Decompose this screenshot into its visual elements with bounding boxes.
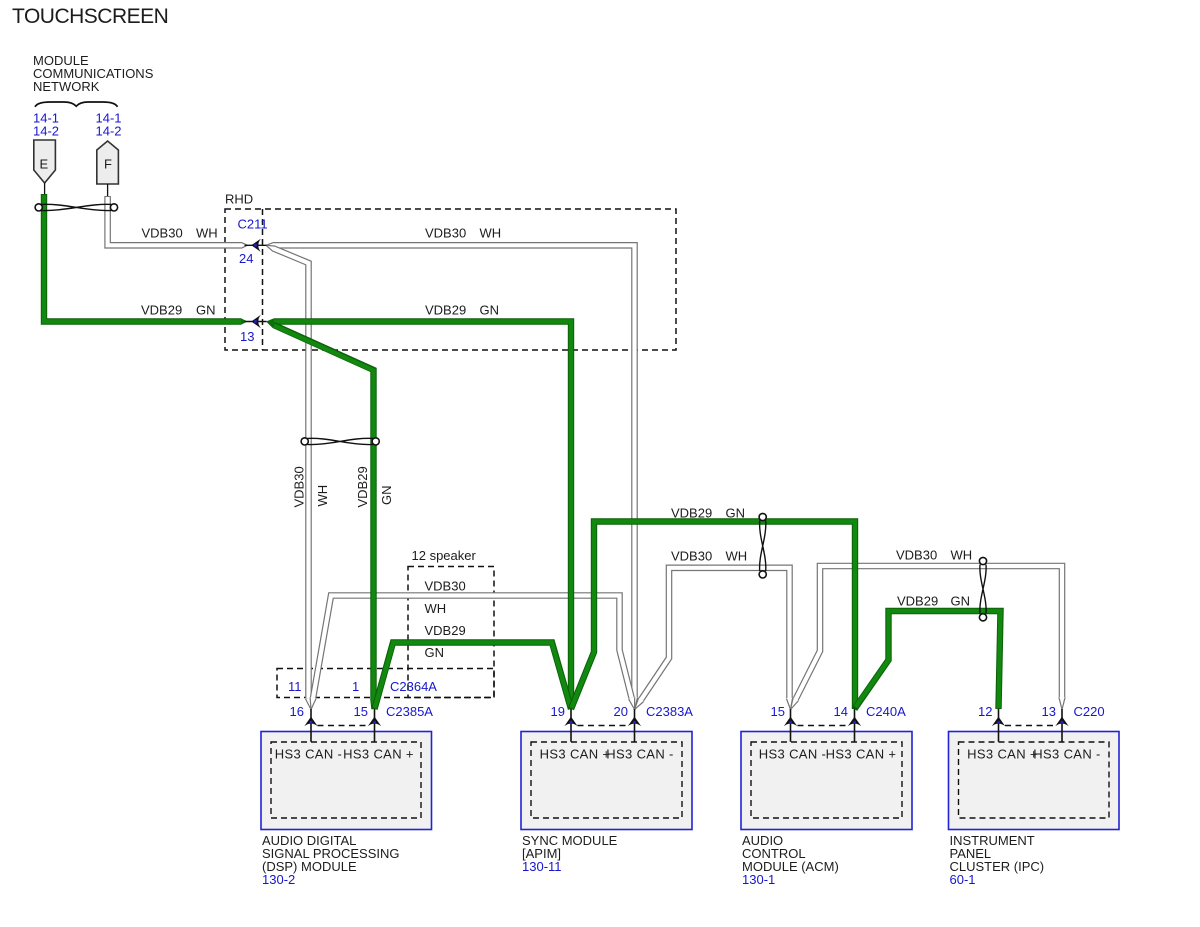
ACM module name <box>742 833 839 887</box>
wire label VDB30 WH (right of C211) <box>425 226 501 241</box>
node label MODULE COMMUNICATIONS NETWORK <box>33 53 154 94</box>
svg-text:HS3 CAN +: HS3 CAN + <box>540 747 611 762</box>
svg-text:WH: WH <box>726 549 748 564</box>
svg-text:VDB29: VDB29 <box>671 506 712 521</box>
svg-text:F: F <box>104 157 112 172</box>
svg-text:12 speaker: 12 speaker <box>412 548 477 563</box>
SYNC pin 20 terminal arrow <box>628 709 641 742</box>
svg-text:VDB30: VDB30 <box>292 466 307 507</box>
svg-text:GN: GN <box>726 506 746 521</box>
brace over network connectors <box>35 102 118 107</box>
svg-text:VDB30: VDB30 <box>425 226 466 241</box>
wire VDB30 WH (DSP pin 16 to SYNC pin 20, 12 speaker) <box>310 596 635 710</box>
module U4 INSTRUMENT PANEL CLUSTER (IPC) box <box>949 726 1120 830</box>
svg-text:13: 13 <box>240 329 254 344</box>
svg-text:VDB29: VDB29 <box>141 303 182 318</box>
connector C211 boundary line (dashed) <box>262 209 264 350</box>
svg-text:WH: WH <box>951 548 973 563</box>
connector E <box>34 140 56 194</box>
svg-text:20: 20 <box>614 704 628 719</box>
wire VDB30 WH (connector F to C211 pin 24) <box>108 196 248 249</box>
wire VDB30 WH (ACM pin 15 to IPC C220 pin 13) <box>791 566 1066 710</box>
svg-text:HS3 CAN -: HS3 CAN - <box>1033 747 1100 762</box>
SYNC pin 19 terminal arrow <box>564 709 577 742</box>
svg-text:GN: GN <box>196 303 216 318</box>
RHD option box (dashed) <box>225 192 676 351</box>
svg-text:VDB30: VDB30 <box>142 226 183 241</box>
svg-text:C2385A: C2385A <box>386 704 433 719</box>
svg-text:HS3 CAN +: HS3 CAN + <box>967 747 1038 762</box>
wire VDB30 WH (C211 pin 24 to DSP C2385A pin 16) <box>266 245 312 709</box>
svg-text:NETWORK: NETWORK <box>33 79 100 94</box>
svg-text:VDB30: VDB30 <box>671 549 712 564</box>
C211 pin 24 arrow <box>245 239 267 252</box>
connector C2364A box (dashed) <box>277 669 494 698</box>
svg-text:VDB30: VDB30 <box>425 579 466 594</box>
wire VDB30 WH (C211 pin 24 to SYNC C2383A pin 20) <box>266 242 638 710</box>
svg-text:15: 15 <box>771 704 785 719</box>
svg-text:15: 15 <box>354 704 368 719</box>
12 speaker option box (dashed) <box>408 548 494 698</box>
IPC module name <box>950 833 1045 887</box>
DSP module name <box>262 833 400 887</box>
wire label VDB29 GN (left of C211) <box>141 303 216 318</box>
svg-text:14-2: 14-2 <box>33 124 59 139</box>
wire label VDB30 / WH (12 speaker run) <box>425 579 466 617</box>
node reference 14-1 14-2 (left) <box>33 111 59 139</box>
wire VDB30 WH (SYNC pin 20 to ACM C240A pin 15) <box>635 568 793 710</box>
svg-text:14: 14 <box>834 704 848 719</box>
svg-text:HS3 CAN -: HS3 CAN - <box>606 747 673 762</box>
svg-text:GN: GN <box>425 645 445 660</box>
svg-text:19: 19 <box>551 704 565 719</box>
wire VDB29 GN (C211 pin 13 to SYNC C2383A pin 19) <box>266 318 571 709</box>
wire VDB29 GN (ACM pin 14 to IPC C220 pin 12) <box>855 611 1001 709</box>
svg-text:WH: WH <box>425 601 447 616</box>
ACM pin 14 terminal arrow <box>848 709 861 742</box>
svg-text:11: 11 <box>288 679 302 694</box>
wire VDB29 GN (connector E to C211 pin 13) <box>44 194 248 325</box>
svg-text:HS3 CAN +: HS3 CAN + <box>343 747 414 762</box>
svg-text:C2364A: C2364A <box>390 679 437 694</box>
ACM pin 15 terminal arrow <box>784 709 797 742</box>
svg-text:VDB30: VDB30 <box>896 548 937 563</box>
module U2 SYNC MODULE [APIM] box <box>521 726 692 830</box>
svg-text:12: 12 <box>978 704 992 719</box>
wire label VDB29 GN (right of C211) <box>425 303 499 318</box>
svg-text:VDB29: VDB29 <box>897 594 938 609</box>
svg-text:VDB29: VDB29 <box>425 623 466 638</box>
wire label VDB30 WH (SYNC to ACM run) <box>671 549 747 564</box>
node reference 14-1 14-2 (right) <box>96 111 122 139</box>
svg-text:GN: GN <box>951 594 971 609</box>
C211 pin 13 arrow <box>245 315 267 328</box>
svg-text:VDB29: VDB29 <box>355 466 370 507</box>
svg-text:GN: GN <box>379 486 394 506</box>
svg-text:1: 1 <box>352 679 359 694</box>
SYNC module name <box>522 833 618 874</box>
svg-text:130-11: 130-11 <box>522 859 562 874</box>
svg-text:24: 24 <box>239 251 253 266</box>
twisted pair symbol (ACM-IPC runs) <box>979 557 986 621</box>
svg-text:130-1: 130-1 <box>742 872 775 887</box>
twisted pair symbol (x=308/373 runs) <box>301 438 379 445</box>
wire VDB29 GN (SYNC pin 19 to ACM C240A pin 14) <box>571 522 855 710</box>
wire label VDB29 GN (SYNC to ACM run) <box>671 506 745 521</box>
module U3 AUDIO CONTROL MODULE (ACM) box <box>741 726 912 830</box>
svg-text:60-1: 60-1 <box>950 872 976 887</box>
wire label VDB29 GN (ACM to IPC run) <box>897 594 970 609</box>
svg-text:13: 13 <box>1042 704 1056 719</box>
IPC pin 13 terminal arrow <box>1055 709 1068 742</box>
IPC pin 12 terminal arrow <box>992 709 1005 742</box>
svg-text:HS3 CAN +: HS3 CAN + <box>826 747 897 762</box>
svg-text:C220: C220 <box>1074 704 1105 719</box>
svg-text:HS3 CAN -: HS3 CAN - <box>759 747 826 762</box>
svg-text:RHD: RHD <box>225 192 253 207</box>
svg-text:C240A: C240A <box>866 704 906 719</box>
connector F <box>97 141 119 196</box>
svg-text:WH: WH <box>315 485 330 507</box>
twisted pair symbol (E/F leads) <box>35 204 118 211</box>
wire VDB29 GN (DSP pin 15 to SYNC pin 19, 12 speaker) <box>375 643 572 710</box>
wire label VDB30 WH (left of C211) <box>142 226 218 241</box>
svg-text:TOUCHSCREEN: TOUCHSCREEN <box>12 5 168 28</box>
wire label VDB29 / GN (12 speaker run) <box>425 623 466 660</box>
svg-text:C2383A: C2383A <box>646 704 693 719</box>
svg-text:E: E <box>40 157 49 172</box>
wire VDB29 GN (C211 pin 13 to DSP C2385A pin 15) <box>266 322 375 710</box>
svg-text:HS3 CAN -: HS3 CAN - <box>275 747 342 762</box>
svg-text:16: 16 <box>290 704 304 719</box>
svg-text:C211: C211 <box>238 217 268 232</box>
twisted pair symbol (SYNC-ACM runs) <box>759 513 766 578</box>
svg-text:14-2: 14-2 <box>96 124 122 139</box>
DSP pin 15 terminal arrow <box>368 709 381 742</box>
svg-text:130-2: 130-2 <box>262 872 295 887</box>
svg-text:WH: WH <box>196 226 218 241</box>
svg-text:WH: WH <box>480 226 502 241</box>
module U1 AUDIO DIGITAL SIGNAL PROCESSING (DSP) MODULE box <box>261 726 432 830</box>
svg-text:GN: GN <box>480 303 500 318</box>
DSP pin 16 terminal arrow <box>304 709 317 742</box>
svg-text:VDB29: VDB29 <box>425 303 466 318</box>
wire label VDB30 WH (ACM to IPC run) <box>896 548 972 563</box>
